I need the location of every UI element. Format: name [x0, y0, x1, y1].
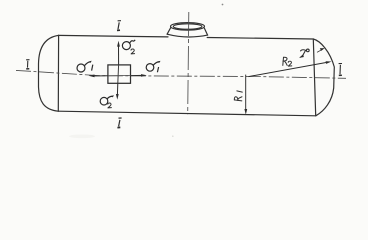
R2 label: [282, 57, 285, 65]
tank top line left segment: [59, 35, 168, 37]
manhole: [167, 23, 208, 37]
sigma1 right label: sigma circle: [146, 62, 159, 73]
R1 radius line: [244, 75, 247, 115]
sigma2 bottom label: sigma circle and digit 2: [100, 96, 113, 105]
section label I top: [117, 21, 121, 31]
section mark II left: [26, 60, 29, 69]
left end cap: [39, 35, 59, 111]
manhole inner rim ellipse: [173, 24, 202, 29]
sigma1 right arrow: [131, 74, 147, 77]
tank top line right segment: [207, 38, 313, 40]
angle leader arrow upper-right to cap: [317, 48, 325, 52]
manhole neck left side: [167, 28, 171, 35]
faint paper smudge bottom: [69, 135, 95, 139]
manhole base arc: [167, 34, 208, 37]
sigma2 up arrow: [117, 41, 120, 65]
R2 radius line: [249, 61, 332, 76]
sigma2 top label: sigma circle with tilde and digit 2: [122, 40, 135, 50]
tank bottom line: [58, 111, 316, 116]
sigma1 left label: sigma circle: [77, 62, 93, 72]
scan speck: [222, 4, 224, 6]
angle label 7deg: [300, 49, 309, 56]
manhole outer rim ellipse: [171, 23, 205, 31]
sigma2 down arrow: [116, 83, 119, 99]
left weld seam: [57, 35, 59, 111]
section mark II right: [339, 64, 342, 76]
R1 label rotated: [234, 91, 242, 101]
section label I bottom: [117, 118, 121, 128]
manhole neck right side: [204, 28, 207, 35]
horizontal axis centerline: [16, 70, 346, 78]
manhole vertical centerline: [188, 12, 189, 114]
sigma1 left arrow: [89, 75, 108, 78]
stress element square: [108, 65, 131, 83]
right weld seam: [313, 39, 315, 116]
right end cap: [313, 39, 334, 116]
vertical section line through element: [117, 65, 120, 83]
horizontal axis segment through element: [108, 75, 131, 77]
angle leader arrow lower-left: [299, 55, 304, 58]
